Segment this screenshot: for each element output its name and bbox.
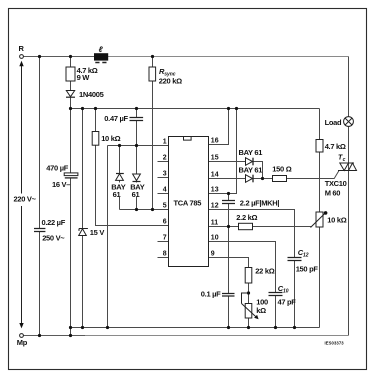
resistor 10k enable <box>92 132 120 146</box>
svg-text:2.2 kΩ: 2.2 kΩ <box>236 213 257 222</box>
svg-text:c: c <box>343 157 346 163</box>
capacitor 0.47uF <box>104 114 143 123</box>
svg-text:4.7 kΩ: 4.7 kΩ <box>325 142 346 151</box>
transistor triac Tc TXC10 M60 <box>325 155 357 198</box>
svg-text:1N4005: 1N4005 <box>79 90 104 99</box>
wire pin3 stub <box>158 177 169 179</box>
wire Rsync branch x152.5 <box>152 57 154 210</box>
wire 100k pot to bus1 <box>248 318 250 328</box>
svg-text:11: 11 <box>211 220 219 227</box>
pin numbers right 16-9 <box>211 138 219 258</box>
svg-text:1: 1 <box>163 139 167 146</box>
wire C12 lower to bus1 <box>294 261 296 328</box>
svg-text:0.1 µF: 0.1 µF <box>201 290 221 299</box>
svg-text:150 pF: 150 pF <box>296 265 319 274</box>
capacitor C10 47pF <box>269 284 297 306</box>
svg-text:14: 14 <box>211 172 219 179</box>
wire Vs rail y108.5 <box>71 108 320 110</box>
svg-text:61: 61 <box>113 190 121 199</box>
svg-text:5: 5 <box>163 203 167 210</box>
wire top mains rail from R to load branch <box>24 56 349 58</box>
node junction dots <box>38 55 296 337</box>
svg-text:220 V~: 220 V~ <box>14 195 37 204</box>
potentiometer 100k <box>242 293 269 319</box>
wire 0.47uF and D2 branch x136.5 <box>136 109 138 210</box>
svg-text:6: 6 <box>163 219 167 226</box>
capacitor 0.22uF 250V <box>34 218 66 242</box>
wire zener branch x82.5 <box>82 109 84 328</box>
svg-text:7: 7 <box>163 235 167 242</box>
capacitor 0.1uF <box>201 290 235 299</box>
wire 0.1uF branch x228.5 <box>228 227 230 328</box>
resistor R1 4.7k 9W <box>66 66 98 82</box>
wire pin8 stub <box>158 257 169 259</box>
svg-text:Mp: Mp <box>17 338 28 347</box>
svg-text:10 kΩ: 10 kΩ <box>101 134 120 143</box>
wire 22k to 100k pot <box>248 283 250 304</box>
svg-text:IES03373: IES03373 <box>325 341 345 346</box>
wire gate wire 150R to triac gate <box>287 171 339 179</box>
svg-text:250 V~: 250 V~ <box>42 233 65 242</box>
wire load branch vertical down right side <box>348 57 350 336</box>
wire pin5 sync wire y209.5 <box>120 209 169 211</box>
wire pin2 stub <box>158 161 169 163</box>
svg-text:kΩ: kΩ <box>256 306 266 315</box>
diode 1N4005 <box>66 90 104 99</box>
svg-text:10 kΩ: 10 kΩ <box>327 216 346 225</box>
wire pin12 to C12 <box>209 210 295 258</box>
svg-text:BAY 61: BAY 61 <box>239 165 263 174</box>
diode D1 BAY61 <box>111 174 130 199</box>
wire diode D1 branch x119.5 <box>119 146 121 210</box>
wire pin14 stub <box>209 178 246 180</box>
pin numbers left 1-8 <box>163 139 167 258</box>
wire pin7 stub <box>158 241 169 243</box>
wire 0.22uF branch vertical <box>39 57 41 336</box>
resistor Rsync 220k <box>149 67 182 86</box>
svg-text:10: 10 <box>211 235 219 242</box>
diode D4 BAY61 pin14 <box>239 165 263 182</box>
resistor 4.7k gate supply <box>316 140 346 153</box>
wire supply branch vertical x70.5 <box>70 57 72 336</box>
wire D4 cathode to 150R <box>254 178 273 180</box>
diode D2 BAY61 <box>130 174 149 199</box>
wire pin1 ground wire y145.5 <box>108 145 169 147</box>
svg-text:220 kΩ: 220 kΩ <box>159 77 182 86</box>
wire pin13 to Vs <box>209 109 237 194</box>
capacitor 470uF 16V electrolytic <box>46 163 78 189</box>
svg-text:15 V: 15 V <box>90 228 105 237</box>
lamp Load <box>325 117 354 127</box>
wire pin4 stub <box>158 193 169 195</box>
svg-text:12: 12 <box>303 253 309 259</box>
svg-text:R: R <box>19 44 25 53</box>
diode D3 BAY61 pin15 <box>239 148 263 165</box>
svg-text:4: 4 <box>163 187 167 194</box>
wire 2.2uF branch vertical x228.5 <box>228 194 230 227</box>
svg-text:0.22 µF: 0.22 µF <box>42 218 66 227</box>
wire pin11 wire <box>209 226 312 228</box>
svg-text:9 W: 9 W <box>77 73 91 82</box>
capacitor 2.2uF MKH <box>222 199 279 208</box>
svg-text:470 µF: 470 µF <box>46 163 68 172</box>
svg-text:3: 3 <box>163 171 167 178</box>
wire ground bus1 <box>71 327 320 329</box>
svg-text:0.47 µF: 0.47 µF <box>104 114 128 123</box>
capacitor C12 150pF <box>288 248 319 274</box>
wire 10k enable branch x95.5 to pin 6 <box>96 109 169 226</box>
wire C10 lower to bus1 <box>275 296 277 328</box>
wire pin10 to C10 <box>209 242 276 293</box>
svg-text:22 kΩ: 22 kΩ <box>255 266 274 275</box>
wire pin15 stub <box>209 161 246 163</box>
svg-text:47 pF: 47 pF <box>278 297 297 306</box>
svg-text:2.2 µF|MKH|: 2.2 µF|MKH| <box>240 199 280 208</box>
wire D3 cathode to gate node <box>254 162 263 179</box>
svg-text:Load: Load <box>325 118 342 127</box>
svg-text:9: 9 <box>211 251 215 258</box>
terminal Mp <box>17 334 28 347</box>
node 220V~ dimension arrow <box>13 61 38 329</box>
inductor L <box>94 45 108 63</box>
resistor 150R gate <box>272 165 291 182</box>
wire pin16 to Vs <box>209 109 229 145</box>
resistor 22k <box>245 266 274 283</box>
resistor 2.2k <box>236 213 257 230</box>
op-amp IC U1 TCA785 body <box>169 137 209 267</box>
svg-text:61: 61 <box>132 190 140 199</box>
wire Mp bus2 bottom <box>24 335 349 337</box>
svg-text:TXC10: TXC10 <box>325 179 347 188</box>
svg-text:8: 8 <box>163 251 167 258</box>
svg-text:150 Ω: 150 Ω <box>272 165 291 174</box>
wire ground branch x107.5 <box>107 146 109 328</box>
zener diode 15V <box>79 228 105 237</box>
figure id text <box>325 341 345 346</box>
terminal R <box>19 44 25 58</box>
svg-text:16 V–: 16 V– <box>52 180 70 189</box>
wire right 4.7k branch x319.5 <box>319 109 321 328</box>
svg-text:BAY 61: BAY 61 <box>239 148 263 157</box>
svg-text:2: 2 <box>163 155 167 162</box>
potentiometer 10k <box>311 211 347 227</box>
svg-text:10: 10 <box>283 289 289 295</box>
svg-text:M 60: M 60 <box>325 189 341 198</box>
svg-text:TCA 785: TCA 785 <box>174 199 202 208</box>
svg-text:15: 15 <box>211 155 219 162</box>
svg-text:16: 16 <box>211 138 219 145</box>
wire pin9 to 22k <box>209 258 249 268</box>
svg-text:12: 12 <box>211 203 219 210</box>
svg-text:13: 13 <box>211 187 219 194</box>
